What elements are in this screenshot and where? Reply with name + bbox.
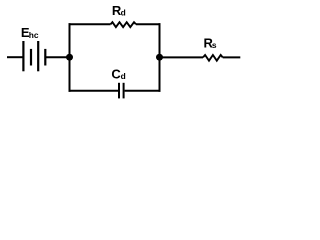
wire: bottom rail left [69,90,119,92]
wire: top rail left [69,23,111,25]
resistor R_d [111,22,136,27]
wire: left lead from edge to battery [7,56,23,58]
capacitor C_d [119,83,124,99]
node B junction dot [156,54,163,61]
wire: right vertical branch [159,23,161,92]
wire: node B to R_s [160,56,204,58]
wire: left vertical branch [69,23,71,92]
wire: R_s to right edge [223,56,241,58]
svg-text:hc: hc [29,30,39,40]
wire: battery to node A [46,56,70,58]
svg-text:d: d [121,8,126,18]
wire: top rail right [136,23,161,25]
svg-text:d: d [121,71,126,81]
battery E_hc [23,41,45,71]
resistor R_s [203,55,223,61]
node A junction dot [66,54,73,61]
wire: bottom rail right [125,90,161,92]
svg-text:s: s [212,40,217,50]
